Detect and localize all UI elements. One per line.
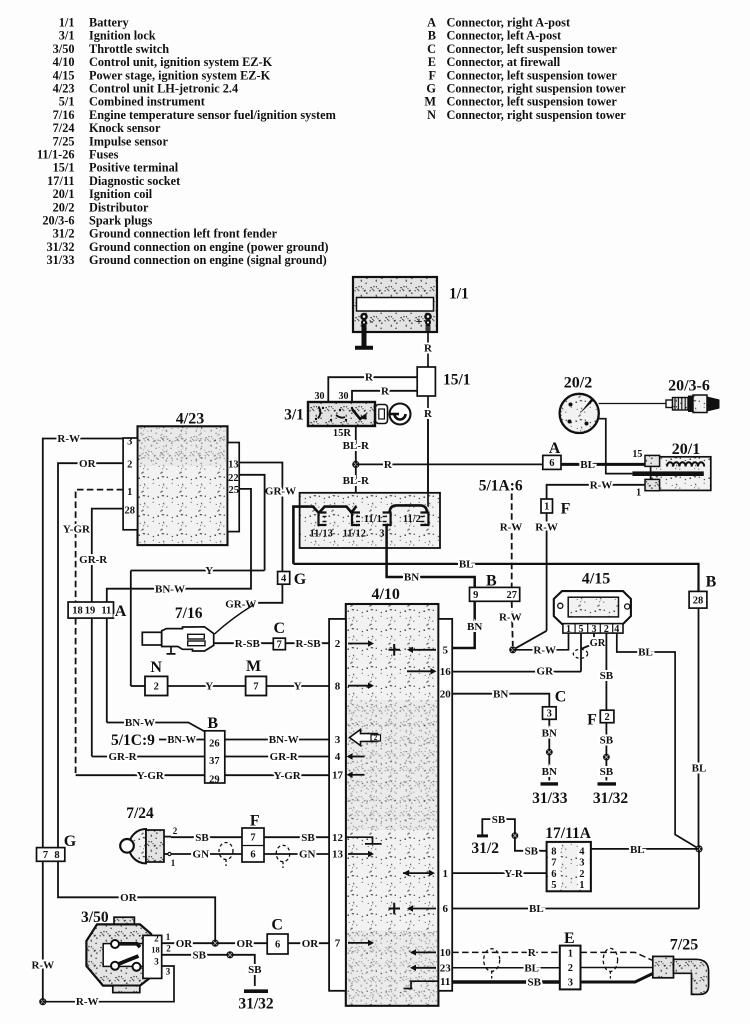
svg-text:29: 29	[209, 774, 220, 785]
svg-text:B: B	[207, 715, 218, 732]
svg-text:3: 3	[568, 978, 573, 989]
svg-text:F: F	[250, 812, 260, 829]
svg-text:1: 1	[636, 488, 641, 499]
svg-text:BN: BN	[467, 621, 482, 633]
svg-text:7/16: 7/16	[53, 108, 75, 122]
svg-text:GR-W: GR-W	[265, 486, 296, 498]
svg-text:7: 7	[250, 833, 255, 844]
svg-text:R: R	[384, 459, 393, 471]
svg-text:Connector, left suspension tow: Connector, left suspension tower	[447, 68, 618, 82]
svg-text:15R: 15R	[333, 428, 352, 439]
svg-text:28: 28	[693, 595, 704, 606]
svg-text:R: R	[528, 947, 537, 959]
svg-text:3/50: 3/50	[53, 42, 75, 56]
svg-text:R-W: R-W	[76, 996, 99, 1008]
svg-text:BL: BL	[692, 763, 707, 775]
svg-text:Y: Y	[205, 681, 213, 693]
svg-text:BL-R: BL-R	[343, 440, 370, 452]
svg-text:A: A	[549, 440, 561, 457]
svg-text:2: 2	[154, 682, 159, 693]
svg-text:C: C	[271, 916, 283, 933]
svg-text:18: 18	[72, 606, 83, 617]
svg-text:BN-W: BN-W	[155, 583, 185, 595]
svg-text:BN-W: BN-W	[269, 734, 299, 746]
svg-text:1: 1	[166, 932, 171, 942]
svg-text:31/32: 31/32	[593, 790, 629, 807]
svg-text:Connector, right suspension to: Connector, right suspension tower	[447, 108, 627, 122]
svg-text:Y-R: Y-R	[504, 868, 524, 880]
svg-text:11: 11	[101, 606, 111, 617]
svg-text:OR: OR	[302, 938, 320, 950]
svg-text:+: +	[416, 314, 423, 328]
svg-text:4: 4	[579, 846, 585, 857]
svg-text:2: 2	[374, 734, 378, 742]
svg-text:2: 2	[568, 963, 573, 974]
svg-text:Impulse sensor: Impulse sensor	[89, 134, 168, 148]
svg-text:A: A	[115, 603, 127, 620]
svg-text:BL: BL	[580, 459, 595, 471]
svg-text:4/23: 4/23	[176, 410, 204, 427]
svg-text:20/1: 20/1	[53, 187, 75, 201]
svg-text:11: 11	[440, 976, 450, 988]
svg-text:BN-W: BN-W	[167, 735, 196, 746]
svg-text:11/1: 11/1	[364, 514, 382, 525]
svg-text:3/1: 3/1	[59, 29, 75, 43]
svg-text:Connector, left A-post: Connector, left A-post	[447, 29, 563, 43]
svg-text:R: R	[424, 408, 433, 420]
svg-text:Y-GR: Y-GR	[274, 770, 302, 782]
svg-text:8: 8	[335, 680, 341, 692]
svg-text:28: 28	[125, 505, 136, 516]
svg-text:GR-R: GR-R	[79, 554, 108, 566]
svg-text:31/32: 31/32	[46, 240, 74, 254]
svg-text:6: 6	[551, 869, 556, 880]
svg-text:20: 20	[440, 688, 452, 700]
svg-text:Ground connection on engine (s: Ground connection on engine (signal grou…	[89, 253, 327, 267]
svg-text:31/33: 31/33	[46, 253, 74, 267]
svg-text:4/15: 4/15	[53, 68, 75, 82]
svg-text:31/33: 31/33	[532, 790, 568, 807]
svg-text:4/15: 4/15	[582, 570, 610, 587]
svg-text:1: 1	[171, 858, 176, 868]
svg-text:R-SB: R-SB	[235, 638, 261, 650]
svg-text:7/24: 7/24	[126, 805, 154, 822]
svg-text:Engine temperature sensor fuel: Engine temperature sensor fuel/ignition …	[89, 108, 337, 122]
svg-text:20/1: 20/1	[672, 441, 700, 458]
svg-text:7: 7	[253, 682, 258, 693]
svg-text:8: 8	[551, 846, 556, 857]
svg-text:20/2: 20/2	[53, 200, 75, 214]
svg-text:BL: BL	[524, 963, 539, 975]
svg-text:Combined instrument: Combined instrument	[89, 95, 206, 109]
svg-text:GN: GN	[299, 849, 316, 861]
svg-text:Connector, right suspension to: Connector, right suspension tower	[447, 82, 627, 96]
svg-text:30: 30	[339, 391, 349, 402]
svg-text:7: 7	[335, 938, 341, 950]
svg-text:Spark plugs: Spark plugs	[89, 214, 152, 228]
svg-text:G: G	[294, 571, 307, 588]
svg-text:BN: BN	[493, 688, 508, 700]
svg-text:4: 4	[281, 573, 287, 584]
svg-text:R-W: R-W	[533, 645, 556, 657]
svg-text:R: R	[365, 372, 374, 384]
svg-text:N: N	[427, 108, 436, 122]
svg-text:7/25: 7/25	[670, 936, 698, 953]
svg-text:30: 30	[315, 391, 325, 402]
svg-text:1: 1	[442, 868, 448, 880]
svg-text:SB: SB	[525, 846, 539, 858]
svg-text:16: 16	[440, 666, 452, 678]
svg-text:20/3-6: 20/3-6	[42, 214, 74, 228]
svg-text:7: 7	[43, 850, 48, 861]
svg-text:GR-R: GR-R	[270, 751, 299, 763]
svg-text:18: 18	[151, 945, 160, 955]
svg-text:1/1: 1/1	[59, 16, 75, 30]
svg-text:SB: SB	[192, 950, 206, 962]
svg-text:A: A	[427, 16, 436, 30]
svg-text:1: 1	[566, 624, 571, 635]
svg-text:Ignition lock: Ignition lock	[89, 29, 156, 43]
svg-text:6: 6	[250, 850, 255, 861]
svg-text:Positive terminal: Positive terminal	[89, 161, 179, 175]
svg-text:12: 12	[332, 832, 344, 844]
svg-text:F: F	[428, 68, 436, 82]
svg-text:31/2: 31/2	[53, 227, 75, 241]
svg-text:26: 26	[209, 739, 220, 750]
svg-text:4/10: 4/10	[371, 586, 399, 603]
svg-text:C: C	[274, 620, 286, 637]
svg-text:GN: GN	[193, 849, 210, 861]
svg-text:Y: Y	[205, 565, 213, 577]
svg-text:19: 19	[85, 606, 96, 617]
svg-text:3: 3	[335, 734, 341, 746]
svg-text:8: 8	[54, 850, 59, 861]
svg-text:1/1: 1/1	[449, 285, 469, 302]
svg-text:GR-R: GR-R	[108, 751, 137, 763]
svg-text:1: 1	[568, 949, 573, 960]
svg-text:6: 6	[275, 940, 280, 951]
svg-text:SB: SB	[248, 964, 262, 976]
svg-text:17/11A: 17/11A	[545, 825, 591, 842]
svg-text:Control unit, ignition system: Control unit, ignition system EZ-K	[89, 55, 273, 69]
svg-text:6: 6	[549, 458, 554, 469]
svg-text:4/10: 4/10	[53, 55, 75, 69]
svg-text:Control unit LH-jetronic 2.4: Control unit LH-jetronic 2.4	[89, 82, 238, 96]
svg-text:5/1: 5/1	[59, 95, 75, 109]
svg-text:Y: Y	[294, 681, 302, 693]
svg-text:7: 7	[277, 640, 282, 651]
svg-text:3/50: 3/50	[81, 909, 109, 926]
svg-text:Y-GR: Y-GR	[137, 770, 165, 782]
svg-text:OR: OR	[79, 458, 97, 470]
svg-text:E: E	[564, 930, 575, 947]
svg-text:17/11: 17/11	[47, 174, 74, 188]
svg-text:9: 9	[473, 590, 478, 601]
svg-text:N: N	[150, 659, 162, 676]
svg-text:SB: SB	[527, 977, 541, 989]
svg-text:3/1: 3/1	[284, 406, 304, 423]
svg-text:Battery: Battery	[89, 16, 129, 30]
svg-text:3: 3	[166, 967, 171, 977]
svg-text:1: 1	[127, 487, 132, 498]
svg-text:3: 3	[379, 529, 384, 540]
svg-text:22: 22	[228, 473, 239, 484]
svg-text:4: 4	[335, 751, 341, 763]
svg-text:7/25: 7/25	[53, 134, 75, 148]
svg-text:SB: SB	[600, 734, 614, 746]
svg-text:11/12: 11/12	[343, 529, 366, 540]
svg-text:Ground connection on engine (p: Ground connection on engine (power groun…	[89, 240, 328, 254]
svg-text:7/24: 7/24	[53, 121, 75, 135]
svg-text:2: 2	[335, 638, 341, 650]
svg-text:31/32: 31/32	[238, 995, 274, 1012]
svg-text:Distributor: Distributor	[89, 200, 149, 214]
svg-text:5: 5	[442, 645, 448, 657]
svg-text:E: E	[428, 55, 436, 69]
svg-text:2: 2	[604, 712, 609, 723]
svg-text:SB: SB	[600, 766, 614, 778]
svg-text:10: 10	[440, 947, 452, 959]
svg-text:C: C	[427, 42, 436, 56]
svg-text:R-SB: R-SB	[295, 638, 321, 650]
svg-text:G: G	[64, 833, 77, 850]
svg-text:11/1-26: 11/1-26	[37, 148, 75, 162]
svg-text:Power stage, ignition system E: Power stage, ignition system EZ-K	[89, 68, 271, 82]
svg-text:BN: BN	[404, 572, 419, 584]
svg-text:BL: BL	[638, 647, 653, 659]
svg-text:R-W: R-W	[500, 522, 523, 534]
svg-text:17: 17	[332, 770, 344, 782]
svg-text:GR: GR	[590, 638, 606, 649]
svg-text:Connector, right A-post: Connector, right A-post	[447, 16, 571, 30]
svg-text:BN-W: BN-W	[125, 717, 155, 729]
svg-text:11/2: 11/2	[403, 514, 421, 525]
svg-text:Ground connection left front f: Ground connection left front fender	[89, 227, 278, 241]
svg-text:15/1: 15/1	[53, 161, 75, 175]
svg-text:5/1C:9: 5/1C:9	[111, 732, 155, 749]
svg-text:3: 3	[127, 437, 132, 448]
svg-text:B: B	[706, 573, 717, 590]
svg-text:R-W: R-W	[499, 612, 522, 624]
svg-text:Connector, at firewall: Connector, at firewall	[447, 55, 561, 69]
svg-text:Connector, left suspension tow: Connector, left suspension tower	[447, 42, 618, 56]
svg-text:OR: OR	[237, 938, 255, 950]
svg-text:15: 15	[632, 449, 642, 460]
svg-text:R: R	[381, 385, 390, 397]
svg-text:2: 2	[579, 869, 584, 880]
svg-text:2: 2	[166, 944, 171, 954]
svg-text:SB: SB	[492, 814, 506, 826]
svg-text:2: 2	[154, 934, 159, 944]
svg-text:G: G	[426, 82, 436, 96]
svg-text:M: M	[246, 658, 261, 675]
svg-text:Ignition coil: Ignition coil	[89, 187, 153, 201]
svg-text:B: B	[428, 29, 436, 43]
svg-text:1: 1	[579, 880, 584, 891]
svg-text:13: 13	[332, 849, 344, 861]
svg-text:5: 5	[551, 880, 556, 891]
svg-text:SB: SB	[195, 832, 209, 844]
svg-text:4/23: 4/23	[53, 82, 75, 96]
svg-text:13: 13	[228, 460, 239, 471]
svg-text:15/1: 15/1	[443, 371, 471, 388]
svg-text:-: -	[370, 314, 374, 328]
svg-text:20/3-6: 20/3-6	[668, 377, 710, 394]
svg-text:3: 3	[579, 858, 584, 869]
svg-text:SB: SB	[301, 832, 315, 844]
svg-text:Throttle switch: Throttle switch	[89, 42, 169, 56]
svg-text:R: R	[424, 342, 433, 354]
svg-text:31/2: 31/2	[471, 840, 499, 857]
svg-text:BL: BL	[459, 559, 474, 571]
svg-text:R-W: R-W	[31, 960, 54, 972]
svg-text:SB: SB	[600, 670, 614, 682]
svg-text:Y-GR: Y-GR	[63, 524, 91, 536]
svg-text:F: F	[561, 500, 571, 517]
svg-text:Fuses: Fuses	[89, 148, 119, 162]
svg-text:BN: BN	[542, 728, 557, 740]
svg-text:1: 1	[544, 502, 549, 513]
svg-text:Diagnostic socket: Diagnostic socket	[89, 174, 181, 188]
svg-text:27: 27	[506, 590, 517, 601]
svg-text:F: F	[587, 711, 597, 728]
svg-text:GR: GR	[537, 666, 555, 678]
svg-text:Knock sensor: Knock sensor	[89, 121, 161, 135]
svg-text:6: 6	[442, 903, 448, 915]
svg-text:23: 23	[440, 963, 452, 975]
svg-text:R-W: R-W	[57, 433, 80, 445]
svg-text:2: 2	[127, 460, 132, 471]
svg-text:20/2: 20/2	[564, 374, 592, 391]
svg-text:BL: BL	[529, 903, 544, 915]
svg-text:37: 37	[209, 756, 220, 767]
svg-text:C: C	[555, 688, 567, 705]
svg-text:Connector, left suspension tow: Connector, left suspension tower	[447, 95, 618, 109]
svg-text:BL: BL	[630, 844, 645, 856]
svg-text:2: 2	[173, 826, 178, 836]
svg-text:7: 7	[551, 858, 556, 869]
svg-text:7/16: 7/16	[175, 605, 203, 622]
svg-text:11/13: 11/13	[310, 529, 333, 540]
svg-text:R-W: R-W	[535, 522, 558, 534]
svg-text:3: 3	[547, 709, 552, 720]
svg-text:GR-W: GR-W	[225, 599, 256, 611]
svg-text:5/1A:6: 5/1A:6	[479, 477, 523, 494]
svg-text:3: 3	[154, 957, 159, 967]
svg-text:BN: BN	[542, 766, 557, 778]
svg-text:M: M	[424, 95, 436, 109]
svg-text:R-W: R-W	[590, 480, 613, 492]
svg-text:25: 25	[229, 485, 240, 496]
svg-text:OR: OR	[120, 892, 138, 904]
svg-text:OR: OR	[176, 938, 194, 950]
svg-text:BL-R: BL-R	[343, 475, 370, 487]
